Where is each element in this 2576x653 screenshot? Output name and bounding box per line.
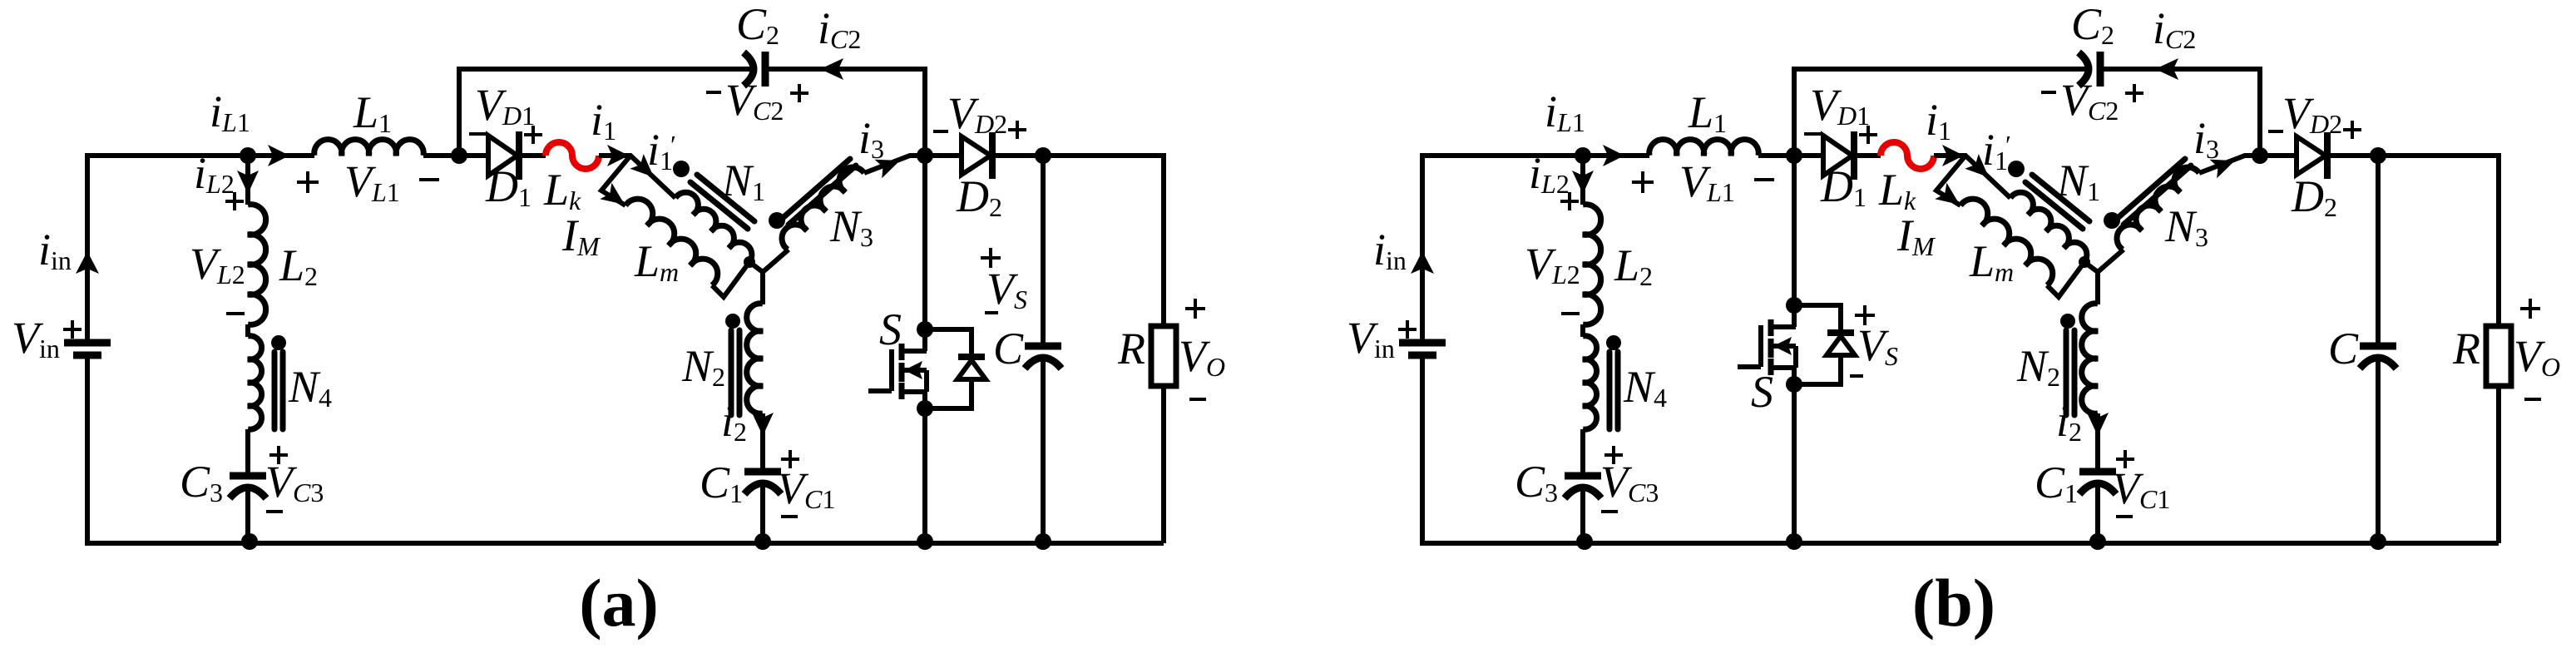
junction dot C3-rail (circuit a)	[241, 533, 258, 550]
junction dot D2 anode node (circuit a)	[917, 147, 933, 164]
minus VC3 (circuit a)	[266, 510, 283, 513]
polarity dot N2 (circuit b)	[2060, 314, 2075, 329]
wire output cap C bottom (circuit a)	[1041, 355, 1046, 543]
arrow iL2 (circuit b)	[1572, 171, 1594, 194]
junction dot D2 anode node (circuit b)	[2252, 147, 2268, 164]
wire D2 to output node (circuit a)	[995, 153, 1043, 158]
wire L2 to N4 (circuit a)	[245, 324, 250, 337]
inductor L1 (circuit b)	[1649, 140, 1758, 156]
minus VL2 (circuit b)	[1561, 312, 1580, 315]
wire N1 to center node (circuit a)	[747, 262, 749, 265]
node mosfet source dot (circuit b)	[1786, 376, 1802, 393]
polarity dot N3 (circuit a)	[769, 212, 785, 229]
core lines N4 (circuit b)	[1607, 352, 1613, 429]
core lines N1 (circuit b)	[2032, 175, 2089, 221]
wire C2 down to D2 node (circuit a)	[922, 69, 927, 156]
junction dot C-rail (circuit a)	[1035, 533, 1051, 550]
node mosfet drain dot (circuit a)	[917, 321, 933, 338]
node center junction (circuit a)	[744, 256, 755, 268]
wire L1 to D1 (circuit b)	[1758, 153, 1823, 158]
wire N1 to center node (circuit b)	[2082, 262, 2084, 265]
wire center node to Y-point (circuit a)	[749, 262, 763, 272]
wire S branch from L1-D1 node (circuit b)	[1792, 156, 1797, 327]
diode D1 (circuit b)	[1823, 136, 1852, 176]
minus VD2 (circuit b)	[2268, 130, 2283, 133]
core lines N1 (circuit a)	[697, 175, 754, 221]
inductor L2 (circuit a)	[248, 205, 266, 325]
node mosfet source dot (circuit a)	[917, 400, 933, 417]
wire C3 to ground rail (circuit a)	[245, 485, 250, 543]
wire S source to ground rail (circuit a)	[922, 392, 927, 543]
wire junction to L2 (circuit a)	[245, 156, 250, 205]
wire D2 to output node (circuit b)	[2330, 153, 2378, 158]
plus VD2 (circuit b)	[2343, 121, 2361, 139]
inductor L2 (circuit b)	[1583, 205, 1601, 325]
plus VC1 (circuit b)	[2116, 450, 2134, 468]
wire C2 top horizontal left (circuit b)	[1792, 67, 2087, 72]
winding N4 coil (circuit b)	[1583, 336, 1597, 429]
minus VC2 (circuit b)	[2041, 91, 2056, 94]
wire S source to ground rail (circuit b)	[1792, 368, 1797, 543]
minus VS (circuit a)	[985, 311, 998, 314]
polarity dot N3 (circuit b)	[2104, 212, 2120, 229]
core lines N4 (circuit a)	[272, 352, 278, 429]
arrow IM (circuit a)	[600, 183, 625, 205]
capacitor C1 (circuit a)	[744, 468, 781, 476]
wire R bottom (circuit a)	[1161, 386, 1166, 543]
junction dot L1-D1 node (circuit b)	[1786, 147, 1802, 164]
winding N3 coil (circuit a)	[782, 167, 864, 250]
wire N2 to C1 with arrow i2 (circuit b)	[2095, 413, 2100, 472]
arrow iin (circuit a)	[76, 251, 99, 274]
wire C1 to ground rail (circuit a)	[760, 481, 765, 543]
plus VL1 (circuit b)	[1632, 171, 1654, 193]
wire C2 down to D2 node (circuit b)	[2257, 69, 2262, 156]
minus VL1 (circuit a)	[419, 178, 439, 181]
inductor Lm coil (circuit b)	[1960, 199, 2053, 285]
plus VS (circuit b)	[1855, 305, 1875, 325]
plus VL2 (circuit b)	[1560, 192, 1579, 210]
wire node to D2 (circuit b)	[2260, 153, 2297, 158]
junction dot iL2 (circuit b)	[1575, 147, 1591, 164]
wire top-left horizontal (circuit b)	[1420, 153, 1649, 158]
junction dot output node (circuit b)	[2370, 147, 2386, 164]
wire N4 to C3 (circuit b)	[1580, 429, 1585, 476]
wire R top (circuit a)	[1161, 156, 1166, 326]
plus VD2 (circuit a)	[1008, 121, 1026, 139]
wire center node to Y-point (circuit b)	[2084, 262, 2098, 272]
capacitor C output (circuit a)	[1025, 343, 1061, 350]
diode D2 (circuit b)	[2297, 136, 2326, 175]
wire i1 bend to N1 start (circuit a)	[599, 156, 675, 198]
wire Lm to center node (circuit a)	[712, 262, 749, 297]
wire S branch from D2 node (circuit a)	[922, 156, 927, 351]
junction dot iL2 (circuit a)	[240, 147, 256, 164]
arrow iin (circuit b)	[1411, 251, 1434, 274]
wire C1 to ground rail (circuit b)	[2095, 481, 2100, 543]
wire N3 to D2 node with arrow i3 (circuit a)	[864, 156, 925, 173]
winding N2 coil (circuit a)	[747, 304, 763, 413]
left vertical wire from source (circuit b)	[1420, 156, 1425, 343]
winding N4 coil (circuit a)	[248, 336, 262, 429]
wire D1 to Lk (circuit a)	[521, 153, 546, 158]
wire node to D2 (circuit a)	[925, 153, 962, 158]
wire N4 to C3 (circuit a)	[245, 429, 250, 476]
arrow iC2 (circuit a)	[820, 58, 843, 80]
arrow iC2 (circuit b)	[2155, 58, 2178, 80]
core lines N3 (circuit b)	[2118, 159, 2185, 218]
capacitor C output (circuit b)	[2360, 343, 2396, 350]
plus Vin (circuit b)	[1398, 320, 1417, 339]
arrow IM (circuit b)	[1935, 183, 1960, 205]
wire C2 top horizontal left (circuit a)	[457, 67, 752, 72]
arrow i3 (circuit b)	[2210, 160, 2235, 178]
wire top-left horizontal (circuit a)	[85, 153, 314, 158]
wire i1 bend to N1 start (circuit b)	[1934, 156, 2010, 198]
wire output cap C bottom (circuit b)	[2376, 355, 2381, 543]
left vertical wire from source (circuit a)	[85, 156, 90, 343]
diode D2 (circuit a)	[962, 136, 991, 175]
wire N3 to D2 node with arrow i3 (circuit b)	[2199, 156, 2260, 173]
winding N3 coil (circuit b)	[2117, 167, 2199, 250]
arrow i2 (circuit a)	[752, 413, 774, 436]
minus VC3 (circuit b)	[1601, 510, 1618, 513]
polarity dot N2 (circuit a)	[725, 314, 740, 329]
minus VD1 (circuit b)	[1804, 132, 1821, 136]
arrow i1 (circuit a)	[607, 145, 629, 166]
resistor R load (circuit b)	[2486, 326, 2511, 386]
junction dot C1-rail (circuit b)	[2089, 533, 2106, 550]
winding N2 coil (circuit b)	[2082, 304, 2098, 413]
minus VD2 (circuit a)	[933, 130, 948, 133]
capacitor C3 (circuit b)	[1565, 472, 1601, 480]
wire C2 riser (circuit a)	[457, 67, 462, 156]
wire Lm zigzag branch (circuit a)	[601, 156, 630, 205]
arrow iL2 (circuit a)	[237, 171, 259, 194]
wire R bottom (circuit b)	[2496, 386, 2501, 543]
wire Lm to center node (circuit b)	[2047, 262, 2084, 297]
wire Y-point to N3 (circuit b)	[2098, 250, 2124, 272]
plus VD1 (circuit a)	[524, 126, 542, 144]
minus VO (circuit b)	[2524, 398, 2541, 401]
junction dot C3-rail (circuit b)	[1576, 533, 1593, 550]
junction dot output node (circuit a)	[1035, 147, 1051, 164]
core lines N3 (circuit a)	[783, 159, 850, 218]
wire D1 to Lk (circuit b)	[1856, 153, 1881, 158]
resistor R load (circuit a)	[1151, 326, 1176, 386]
minus VO (circuit a)	[1189, 398, 1206, 401]
arrow i2 (circuit b)	[2087, 413, 2109, 436]
junction dot C-rail (circuit b)	[2370, 533, 2386, 550]
node center junction (circuit b)	[2079, 256, 2090, 268]
node mosfet drain dot (circuit b)	[1786, 297, 1802, 314]
svg-text:(b): (b)	[1912, 565, 1995, 641]
minus VS (circuit b)	[1850, 374, 1863, 378]
wire C2 top horizontal right (circuit b)	[2102, 67, 2262, 72]
minus VC2 (circuit a)	[706, 91, 721, 94]
wire output node to R corner (circuit a)	[1043, 153, 1166, 158]
plus VC1 (circuit a)	[781, 450, 799, 468]
wire Lm zigzag branch (circuit b)	[1936, 156, 1965, 205]
polarity dot N1 (circuit a)	[673, 161, 690, 177]
polarity dot N1 (circuit b)	[2008, 161, 2025, 177]
junction dot S-rail (circuit b)	[1786, 533, 1802, 550]
wire battery to ground rail (circuit b)	[1420, 355, 1425, 543]
svg-text:S: S	[1751, 367, 1773, 417]
arrow i1' (circuit b)	[1965, 154, 1989, 177]
minus VL1 (circuit b)	[1754, 178, 1774, 181]
wire Y-point to N2 (circuit a)	[760, 272, 765, 304]
capacitor C2 (circuit b)	[2079, 52, 2089, 86]
wire output cap C top (circuit a)	[1041, 156, 1046, 346]
wire Y-point to N3 (circuit a)	[763, 250, 789, 272]
plus VC2 (circuit b)	[2125, 84, 2143, 102]
plus VC2 (circuit a)	[790, 84, 808, 102]
junction dot L1-D1 node (circuit a)	[451, 147, 467, 164]
core lines N2 (circuit b)	[2064, 330, 2069, 415]
wire N2 to C1 with arrow i2 (circuit a)	[760, 413, 765, 472]
wire C3 to ground rail (circuit b)	[1580, 485, 1585, 543]
plus VC3 (circuit b)	[1604, 446, 1623, 464]
svg-text:C: C	[2328, 324, 2359, 373]
transistor S mosfet (circuit a)	[868, 344, 927, 399]
plus VL1 (circuit a)	[297, 171, 319, 193]
wire L1 to D1 (circuit a)	[423, 153, 488, 158]
leakage inductor Lk red squiggle (circuit a)	[546, 142, 599, 169]
inductor Lm coil (circuit a)	[625, 199, 718, 285]
wire L2 to N4 (circuit b)	[1580, 324, 1585, 337]
minus VD1 (circuit a)	[469, 132, 486, 136]
core lines N2 (circuit a)	[729, 330, 734, 415]
leakage inductor Lk red squiggle (circuit b)	[1881, 142, 1934, 169]
svg-text:(a): (a)	[579, 565, 659, 641]
plus VD1 (circuit b)	[1859, 126, 1877, 144]
plus VO (circuit a)	[1185, 299, 1205, 319]
capacitor C1 (circuit b)	[2079, 468, 2116, 476]
junction dot C1-rail (circuit a)	[754, 533, 771, 550]
wire output node to R corner (circuit b)	[2378, 153, 2501, 158]
ground rail bottom (circuit a)	[85, 541, 1164, 546]
junction dot S-rail (circuit a)	[917, 533, 933, 550]
body diode of S (circuit b)	[1827, 329, 1854, 336]
wire Y-point to N2 (circuit b)	[2095, 272, 2100, 304]
arrow i1' (circuit a)	[630, 154, 654, 177]
minus VC1 (circuit a)	[781, 515, 798, 518]
wire C2 riser (circuit b)	[1792, 67, 1797, 156]
plus Vin (circuit a)	[63, 320, 82, 339]
diode D1 (circuit a)	[488, 136, 517, 176]
minus VC1 (circuit b)	[2116, 515, 2133, 518]
capacitor C3 (circuit a)	[230, 472, 266, 480]
wire battery to ground rail (circuit a)	[85, 355, 90, 543]
capacitor C2 (circuit a)	[744, 52, 754, 86]
wire R top (circuit b)	[2496, 156, 2501, 326]
polarity dot N4 (circuit a)	[271, 335, 286, 350]
wire C2 top horizontal right (circuit a)	[767, 67, 927, 72]
wire body-diode loop (circuit a)	[925, 329, 972, 408]
winding N1 coil (circuit b)	[2010, 192, 2087, 265]
plus VC3 (circuit a)	[269, 446, 288, 464]
minus VL2 (circuit a)	[226, 312, 245, 315]
arrow i3 (circuit a)	[875, 160, 900, 178]
voltage source Vin battery (circuit a)	[64, 339, 111, 347]
wire output cap C top (circuit b)	[2376, 156, 2381, 346]
ground rail bottom (circuit b)	[1420, 541, 2499, 546]
voltage source Vin battery (circuit b)	[1399, 339, 1446, 347]
arrow iL1 (circuit a)	[268, 145, 289, 166]
body diode of S (circuit a)	[958, 354, 985, 360]
winding N1 coil (circuit a)	[675, 192, 752, 265]
wire junction to L2 (circuit b)	[1580, 156, 1585, 205]
plus VO (circuit b)	[2520, 299, 2540, 319]
plus VS (circuit a)	[981, 248, 1001, 268]
plus VL2 (circuit a)	[225, 192, 244, 210]
svg-text:R: R	[2452, 324, 2480, 373]
svg-text:C: C	[993, 324, 1024, 373]
svg-text:R: R	[1117, 324, 1145, 373]
svg-text:S: S	[879, 304, 902, 354]
arrow i1 (circuit b)	[1942, 145, 1964, 166]
arrow iL1 (circuit b)	[1603, 145, 1624, 166]
polarity dot N4 (circuit b)	[1606, 335, 1621, 350]
transistor S mosfet (circuit b)	[1738, 319, 1796, 375]
wire body-diode loop (circuit b)	[1794, 305, 1841, 384]
inductor L1 (circuit a)	[314, 140, 423, 156]
